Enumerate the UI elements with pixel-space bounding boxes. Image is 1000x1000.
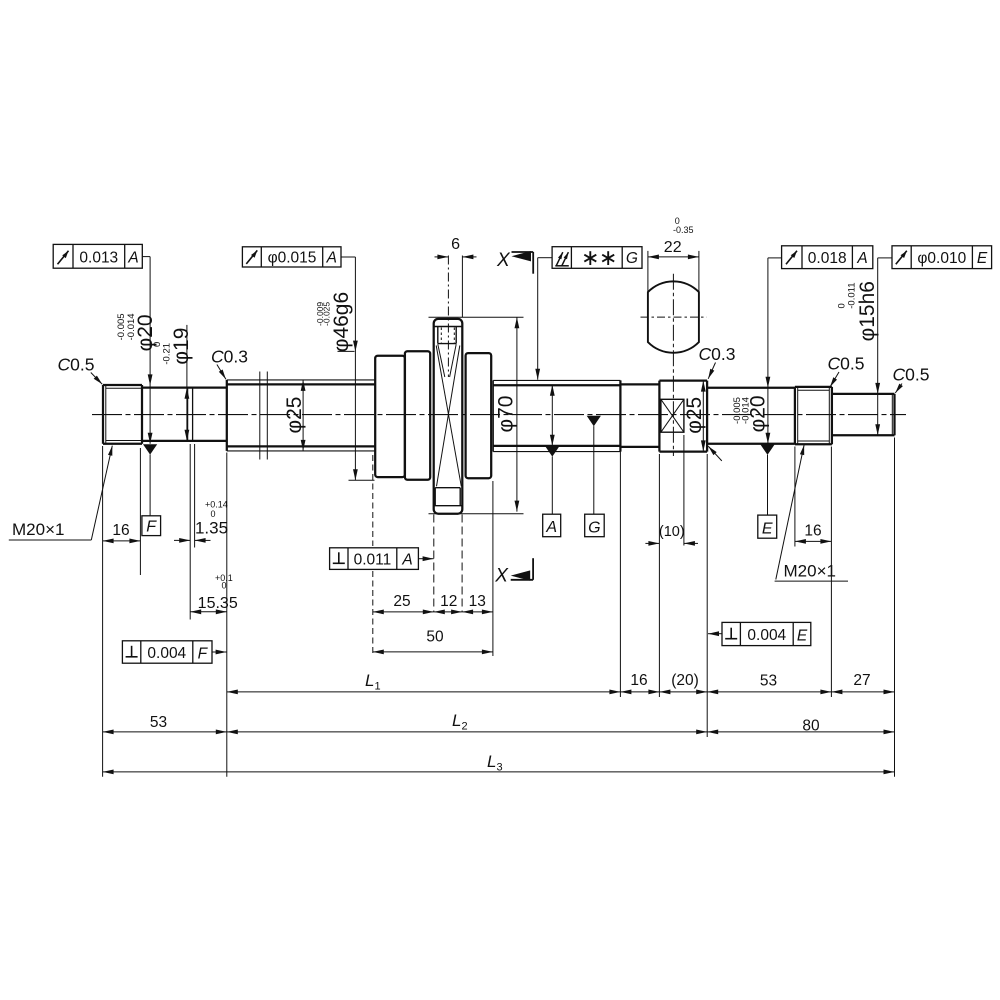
plain relief section	[620, 383, 659, 385]
svg-text:80: 80	[802, 718, 820, 735]
nut body block right	[466, 353, 492, 478]
feature frame total runout ** G	[552, 247, 642, 269]
dim phi20 right with leader from 0.018 frame	[768, 257, 782, 259]
svg-text:(20): (20)	[671, 672, 699, 689]
svg-text:-0.35: -0.35	[673, 225, 694, 235]
extension line x=794.9	[794, 447, 796, 547]
datum E leader and box	[767, 455, 769, 515]
phi46 extension ticks	[338, 350, 355, 352]
svg-text:53: 53	[760, 673, 777, 690]
svg-text:13: 13	[469, 593, 486, 610]
step to phi25 ball screw section	[226, 380, 228, 451]
svg-text:φ70: φ70	[494, 396, 517, 433]
svg-text:0.004: 0.004	[747, 627, 786, 644]
dim datum A journal	[551, 385, 553, 446]
svg-text:G: G	[626, 250, 638, 267]
dim phi19	[186, 325, 188, 441]
svg-text:0.011: 0.011	[354, 551, 392, 568]
datum F triangle	[143, 444, 157, 454]
svg-text:C0.3: C0.3	[699, 344, 736, 364]
centerline return tube axis	[447, 256, 449, 378]
thread M20x1 left section	[102, 385, 104, 444]
svg-text:0: 0	[222, 581, 227, 591]
extension line of 6 dim right	[461, 256, 463, 318]
leader of total runout frame to groove	[538, 257, 552, 259]
svg-text:6: 6	[451, 236, 460, 253]
nut flange phi70 with return tube	[434, 319, 463, 514]
extension line x=659.4	[658, 454, 660, 697]
svg-text:F: F	[198, 645, 209, 662]
extension line x=707.2	[706, 454, 708, 737]
flange cross X	[436, 346, 461, 487]
dim 15.35	[190, 611, 227, 613]
extension lines of 22 dim	[647, 251, 649, 304]
leader of 0.004 E frame	[708, 633, 722, 635]
dim phi15h6 with leader from 0.010 frame	[878, 257, 892, 259]
svg-text:A: A	[326, 250, 337, 267]
nut body block mid	[405, 351, 430, 480]
extension lines 1.35 pair	[189, 444, 191, 620]
crosshair of flat view	[641, 316, 707, 318]
svg-text:16: 16	[112, 522, 129, 539]
svg-text:0.013: 0.013	[79, 249, 118, 266]
datum F leader and box	[149, 455, 151, 516]
svg-text:25: 25	[393, 593, 410, 610]
phi19 neck section	[142, 386, 227, 388]
datum G leader and box	[593, 426, 595, 514]
svg-text:A: A	[127, 250, 138, 267]
svg-text:27: 27	[853, 672, 870, 689]
svg-text:φ15h6: φ15h6	[856, 281, 879, 341]
extension line x=372.8 dashed	[372, 455, 374, 546]
extension line x=226.8	[226, 453, 228, 777]
svg-text:15.35: 15.35	[198, 595, 238, 612]
svg-text:A: A	[401, 552, 412, 569]
svg-text:M20×1: M20×1	[12, 520, 64, 539]
extension line x=140.4	[139, 448, 141, 575]
svg-text:M20×1: M20×1	[784, 562, 836, 581]
dim 16 thread right	[795, 540, 832, 542]
feature frame runout 0.018 A	[782, 246, 873, 269]
svg-text:16: 16	[630, 672, 647, 689]
svg-text:(10): (10)	[659, 524, 685, 540]
dim phi46g6 with leader from runout frame	[341, 256, 355, 258]
wrench flat crossed box	[661, 399, 684, 432]
datum A triangle	[545, 446, 559, 456]
extension line x=894.5	[894, 438, 896, 777]
svg-text:φ25: φ25	[283, 397, 306, 434]
phi25 wrench flat section	[658, 381, 660, 452]
dim phi25 wrench flat section	[702, 381, 704, 452]
svg-text:φ0.010: φ0.010	[917, 250, 966, 267]
svg-text:E: E	[762, 520, 773, 537]
dim 1.35 relief	[174, 539, 190, 541]
svg-text:φ46g6: φ46g6	[330, 292, 353, 352]
dim (10) flat length	[645, 542, 659, 544]
datum G triangle	[587, 416, 601, 426]
extension line x=102.6	[102, 446, 104, 777]
dim 6 tube width	[435, 256, 449, 258]
extension line x=620.4	[619, 450, 621, 698]
feature frame perpendicularity 0.011 A	[330, 548, 419, 570]
datum A leader and box	[551, 457, 553, 515]
phi70 extension ticks	[429, 316, 524, 318]
extension line x=831.4	[830, 447, 832, 698]
svg-text:φ0.015: φ0.015	[268, 249, 317, 266]
svg-text:C0.5: C0.5	[828, 354, 865, 374]
svg-text:X: X	[496, 250, 511, 271]
centerline main axis	[92, 414, 906, 416]
wrench flats rotated view 22 across	[648, 281, 699, 352]
dim phi25 left	[302, 380, 304, 451]
extension line tube left x=433.8	[433, 515, 435, 612]
feature frame runout phi0.015 A	[242, 247, 341, 267]
svg-text:0.004: 0.004	[147, 645, 186, 662]
svg-text:22: 22	[664, 239, 682, 256]
svg-text:0.018: 0.018	[808, 250, 847, 267]
svg-text:1.35: 1.35	[195, 518, 228, 537]
extension line tube right x=462.1	[461, 515, 463, 612]
dim phi20 left with leader from runout frame	[142, 256, 150, 258]
svg-text:-0.025: -0.025	[321, 302, 331, 326]
dim 50	[373, 651, 493, 653]
svg-text:G: G	[588, 519, 600, 536]
total runout symbol	[555, 265, 569, 267]
svg-text:+0.14: +0.14	[205, 500, 228, 510]
step at end of groove	[619, 380, 621, 451]
dim row L1 16 (20) 53 27	[227, 691, 895, 693]
feature frame perpendicularity 0.004 E	[722, 622, 811, 645]
break lines	[259, 372, 261, 460]
feature frame perpendicularity 0.004 F	[122, 641, 212, 663]
svg-text:φ25: φ25	[683, 397, 706, 434]
dim row L3	[103, 771, 895, 773]
svg-text:E: E	[797, 627, 808, 644]
phi20 journal right	[707, 387, 795, 389]
feature frame runout 0.013 A	[53, 244, 142, 268]
dim chain 25 12 13	[373, 611, 493, 613]
svg-text:16: 16	[804, 523, 821, 540]
extension line x=683.9	[683, 435, 685, 546]
extension line x=492.9	[492, 481, 494, 656]
return tube funnel	[438, 344, 445, 377]
asterisk marks	[589, 251, 591, 265]
svg-text:-0.011: -0.011	[846, 282, 857, 308]
nut body block left	[375, 356, 405, 477]
svg-text:A: A	[856, 250, 867, 267]
svg-text:12: 12	[440, 593, 457, 610]
svg-text:φ19: φ19	[170, 328, 193, 365]
dim 22 across flats	[648, 256, 699, 258]
dim row 53 L2 80	[103, 731, 895, 733]
bottom tube pocket	[435, 487, 460, 489]
dim phi70	[516, 317, 518, 511]
svg-text:C0.3: C0.3	[211, 347, 248, 367]
svg-text:E: E	[977, 250, 988, 267]
leader of 0.011 frame	[418, 558, 433, 560]
svg-text:-0.21: -0.21	[162, 343, 173, 365]
small leader arrow at phi20 step	[708, 446, 722, 461]
svg-text:A: A	[545, 519, 557, 536]
centerline vertical through wrench flats	[672, 274, 674, 456]
svg-text:50: 50	[426, 629, 444, 646]
phi25 ball screw grooved section right	[493, 379, 620, 381]
svg-text:C0.5: C0.5	[58, 355, 95, 375]
svg-text:53: 53	[150, 714, 167, 731]
datum E triangle	[760, 445, 774, 455]
svg-text:-0.014: -0.014	[741, 397, 752, 424]
phi15h6 end section	[832, 393, 895, 395]
phi25 ball screw grooved section left	[227, 379, 375, 381]
feature frame runout phi0.010 E	[892, 246, 992, 269]
svg-text:X: X	[494, 566, 509, 587]
svg-text:C0.5: C0.5	[893, 365, 930, 385]
svg-text:-0.014: -0.014	[126, 313, 137, 340]
svg-text:F: F	[146, 519, 157, 536]
step to phi20 journal	[706, 381, 708, 452]
leader of 0.004 F frame	[212, 651, 227, 653]
thread M20x1 right section	[794, 387, 796, 444]
dim 16 thread left	[103, 540, 141, 542]
